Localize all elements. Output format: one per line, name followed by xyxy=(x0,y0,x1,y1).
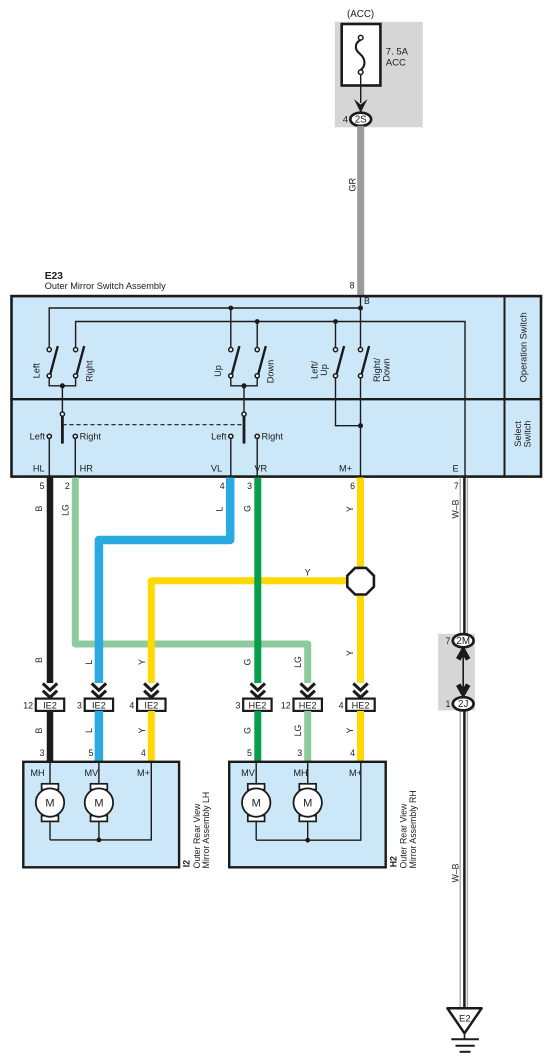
compartment divider horizontal xyxy=(10,398,541,400)
svg-text:1: 1 xyxy=(445,699,450,709)
wire junction to select pole xyxy=(61,386,63,412)
bus wire RH motors xyxy=(256,763,361,840)
svg-text:VL: VL xyxy=(211,463,222,473)
wire MH to motor xyxy=(49,763,51,784)
svg-text:Operation Switch: Operation Switch xyxy=(519,312,529,382)
svg-text:B: B xyxy=(34,727,44,733)
bus wire lower xyxy=(76,322,465,477)
junction up/bus xyxy=(228,306,233,311)
svg-text:Outer Mirror Switch Assembly: Outer Mirror Switch Assembly xyxy=(45,281,166,291)
svg-text:Right/Down: Right/Down xyxy=(372,358,391,382)
wire Y branch xyxy=(151,581,360,683)
arrow into 2J xyxy=(458,685,468,694)
node B xyxy=(358,306,363,311)
svg-text:Outer Rear ViewMirror Assembly: Outer Rear ViewMirror Assembly RH xyxy=(399,790,418,868)
switch Down lever xyxy=(258,346,265,374)
svg-text:GR: GR xyxy=(347,177,357,191)
svg-text:6: 6 xyxy=(350,481,355,491)
svg-text:2: 2 xyxy=(65,481,70,491)
select contact HL xyxy=(47,434,51,438)
svg-text:4: 4 xyxy=(343,115,348,126)
switch Right contacts xyxy=(74,348,78,352)
wire MH RH to motor xyxy=(307,763,309,784)
connector IE2 (12) xyxy=(36,699,64,711)
wire motor MH RH to bus xyxy=(307,821,309,840)
junction block shading xyxy=(438,634,475,711)
svg-text:IE2: IE2 xyxy=(43,700,57,710)
wire fuse to connector 2S xyxy=(360,75,362,104)
svg-text:Right: Right xyxy=(262,431,284,441)
wire up drop xyxy=(230,308,232,348)
switch Left contacts xyxy=(47,348,51,352)
svg-text:M: M xyxy=(303,798,312,810)
svg-text:Outer Rear ViewMirror Assembly: Outer Rear ViewMirror Assembly LH xyxy=(192,792,211,869)
svg-text:G: G xyxy=(243,505,253,512)
wire HR contact to pin xyxy=(74,438,76,476)
wire MV to motor xyxy=(98,763,100,784)
wire Y (M+) main xyxy=(357,478,364,684)
select lever 1 xyxy=(61,416,64,443)
wire motor MH to bus xyxy=(49,821,51,840)
motor M vertical RH xyxy=(242,784,270,822)
switch Left/Up lever xyxy=(337,346,344,374)
box H2 xyxy=(229,762,386,868)
svg-text:SelectSwitch: SelectSwitch xyxy=(513,420,532,447)
svg-text:2J: 2J xyxy=(458,699,468,710)
svg-text:Y: Y xyxy=(305,568,311,578)
svg-text:M+: M+ xyxy=(339,463,352,473)
arrow into HE2 pin3 xyxy=(251,683,265,697)
svg-text:HL: HL xyxy=(33,463,45,473)
wire W-B core xyxy=(463,478,466,1009)
bus wire LH motors xyxy=(50,763,151,840)
svg-text:M+: M+ xyxy=(137,768,150,778)
ground hatch xyxy=(451,1038,479,1040)
wire left-up to M+ junction xyxy=(336,378,361,426)
svg-text:HE2: HE2 xyxy=(352,700,370,710)
svg-text:Y: Y xyxy=(345,506,355,512)
svg-text:I2: I2 xyxy=(182,860,192,867)
svg-text:LG: LG xyxy=(293,656,303,668)
wire W-B outline right xyxy=(466,478,468,1009)
motor M horizontal RH xyxy=(294,784,322,822)
junction down/bus xyxy=(255,319,260,324)
wire B below connector xyxy=(47,711,54,763)
connector IE2 (3) xyxy=(85,699,113,711)
svg-text:Left: Left xyxy=(30,431,46,441)
junction up/down xyxy=(242,383,247,388)
junction LH bus xyxy=(97,838,102,843)
switch Right/Down contacts xyxy=(358,348,362,352)
wire GR xyxy=(357,126,364,295)
wire motor MV RH to bus xyxy=(255,821,257,840)
switch assembly box E23 xyxy=(12,296,542,477)
wire right-down drop xyxy=(360,308,362,348)
fuse F 7.5A ACC body xyxy=(342,24,381,86)
svg-text:Left: Left xyxy=(211,431,227,441)
motor M horizontal LH xyxy=(36,784,64,822)
wire VR contact to pin xyxy=(256,438,258,476)
wire Y below connector right xyxy=(357,711,364,763)
svg-text:G: G xyxy=(243,727,253,734)
svg-text:M+: M+ xyxy=(349,768,362,778)
svg-text:HR: HR xyxy=(80,463,94,473)
arrow into IE2 pin12 xyxy=(43,683,368,697)
svg-text:8: 8 xyxy=(350,281,355,291)
svg-text:Y: Y xyxy=(345,650,355,656)
svg-text:Y: Y xyxy=(137,659,147,665)
svg-text:W–B: W–B xyxy=(450,863,460,882)
svg-text:3: 3 xyxy=(297,748,302,758)
arrow into 2S xyxy=(354,99,368,113)
svg-text:5: 5 xyxy=(247,748,252,758)
wire MV to motor xyxy=(255,763,257,784)
svg-text:MV: MV xyxy=(85,768,100,778)
svg-text:B: B xyxy=(34,505,44,511)
wire 2M to 2J xyxy=(462,654,464,690)
ground E2 triangle xyxy=(447,1008,481,1033)
wire left-up drop xyxy=(335,322,337,348)
svg-text:MH: MH xyxy=(293,768,307,778)
noise filter octagon xyxy=(347,568,374,595)
svg-text:IE2: IE2 xyxy=(144,700,158,710)
svg-text:Up: Up xyxy=(213,365,223,377)
junction RH bus xyxy=(305,838,310,843)
switch Left/Up contacts xyxy=(333,348,337,352)
wire motor MV to bus xyxy=(98,821,100,840)
svg-text:12: 12 xyxy=(23,700,33,710)
wire right-down to pin M+ xyxy=(360,378,362,476)
svg-text:HE2: HE2 xyxy=(248,700,266,710)
svg-text:LG: LG xyxy=(293,724,303,736)
wire B (HL) xyxy=(47,478,54,684)
box I2 xyxy=(23,762,179,868)
compartment divider vertical xyxy=(504,296,506,476)
svg-text:L: L xyxy=(84,659,94,664)
svg-text:M: M xyxy=(252,798,261,810)
svg-text:M: M xyxy=(94,798,103,810)
svg-text:E2: E2 xyxy=(459,1014,471,1025)
select contact VL xyxy=(229,434,233,438)
svg-text:LG: LG xyxy=(61,504,71,516)
connector IE2 (4) xyxy=(137,699,165,711)
select pole 2 xyxy=(242,412,246,416)
svg-text:G: G xyxy=(243,658,253,665)
junction left-up/bus xyxy=(333,319,338,324)
select contact VR xyxy=(255,434,259,438)
svg-text:E: E xyxy=(453,463,459,473)
svg-text:5: 5 xyxy=(40,481,45,491)
connector HE2 (4) xyxy=(346,699,374,711)
svg-text:MV: MV xyxy=(241,768,256,778)
switch Left lever xyxy=(50,346,57,374)
svg-text:7. 5A: 7. 5A xyxy=(386,47,409,58)
svg-text:3: 3 xyxy=(235,700,240,710)
svg-text:B: B xyxy=(364,296,370,306)
svg-text:4: 4 xyxy=(339,700,344,710)
switch Up lever xyxy=(232,346,239,374)
switch Right/Down lever xyxy=(362,346,369,374)
wire Y below connector left xyxy=(148,711,155,763)
svg-text:Y: Y xyxy=(137,727,147,733)
svg-text:L: L xyxy=(215,506,225,511)
wire HL contact to pin xyxy=(48,438,50,476)
svg-text:2S: 2S xyxy=(355,115,367,126)
bracket up/down to junction xyxy=(231,378,257,386)
svg-text:4: 4 xyxy=(141,748,146,758)
select contact HR xyxy=(73,434,77,438)
svg-text:2M: 2M xyxy=(456,636,470,647)
power source shading box xyxy=(335,22,423,128)
svg-text:L: L xyxy=(84,728,94,733)
fuse terminal top xyxy=(358,35,363,40)
arrow into IE2 pin3 xyxy=(92,683,106,697)
ground stub xyxy=(464,1032,466,1039)
switch Down contacts xyxy=(255,348,259,352)
svg-text:IE2: IE2 xyxy=(92,700,106,710)
wire G below connector xyxy=(254,711,261,763)
wire junction to select pole 2 xyxy=(243,386,245,412)
wire L (VL) xyxy=(99,478,230,684)
motor M vertical LH xyxy=(85,784,113,822)
junction left/right xyxy=(60,383,65,388)
svg-text:B: B xyxy=(34,657,44,663)
svg-text:Left: Left xyxy=(32,363,42,379)
wire down drop xyxy=(256,322,258,348)
connector 2S xyxy=(350,113,371,126)
connector HE2 (12) xyxy=(294,699,322,711)
connector 2M xyxy=(453,634,474,647)
wire VL contact to pin xyxy=(230,438,232,476)
bracket left/right to junction xyxy=(49,378,75,386)
svg-text:VR: VR xyxy=(254,463,267,473)
svg-text:Right: Right xyxy=(85,360,95,382)
svg-text:W–B: W–B xyxy=(450,499,460,518)
svg-text:4: 4 xyxy=(350,748,355,758)
wire L below connector xyxy=(95,711,104,763)
bus wire upper (B) xyxy=(49,308,360,348)
svg-text:7: 7 xyxy=(445,636,450,646)
switch Up contacts xyxy=(229,348,233,352)
wire LG below connector xyxy=(304,711,311,763)
wire LG (HR) xyxy=(75,478,307,684)
select lever 2 xyxy=(243,416,246,443)
arrow out of 2M xyxy=(458,651,468,660)
svg-text:Down: Down xyxy=(266,360,276,384)
svg-text:MH: MH xyxy=(30,768,44,778)
svg-text:3: 3 xyxy=(40,748,45,758)
svg-text:M: M xyxy=(45,798,54,810)
svg-text:Right: Right xyxy=(80,431,102,441)
arrow into IE2 pin4 xyxy=(144,683,158,697)
svg-text:7: 7 xyxy=(454,481,459,491)
svg-text:3: 3 xyxy=(77,700,82,710)
select mechanical link dashed xyxy=(62,424,244,426)
svg-text:HE2: HE2 xyxy=(299,700,317,710)
svg-text:Y: Y xyxy=(345,727,355,733)
wire G (VR) xyxy=(254,478,261,684)
junction M+ xyxy=(358,423,363,428)
svg-text:(ACC): (ACC) xyxy=(347,9,374,20)
fuse element xyxy=(356,40,365,70)
wire W-B outline left xyxy=(459,478,461,1009)
arrow into HE2 pin4 xyxy=(353,683,367,697)
arrow into HE2 pin12 xyxy=(301,683,315,697)
connector 2J xyxy=(453,697,474,710)
svg-text:12: 12 xyxy=(281,700,291,710)
switch Right lever xyxy=(77,346,84,374)
svg-text:4: 4 xyxy=(129,700,134,710)
connector HE2 (3) xyxy=(243,699,271,711)
svg-text:H2: H2 xyxy=(388,856,398,867)
svg-text:4: 4 xyxy=(220,481,225,491)
wire pin8 entry xyxy=(360,296,362,308)
svg-text:5: 5 xyxy=(88,748,93,758)
svg-text:3: 3 xyxy=(247,481,252,491)
svg-text:ACC: ACC xyxy=(386,58,406,69)
fuse terminal bottom xyxy=(358,70,363,75)
select pole 1 xyxy=(60,412,64,416)
